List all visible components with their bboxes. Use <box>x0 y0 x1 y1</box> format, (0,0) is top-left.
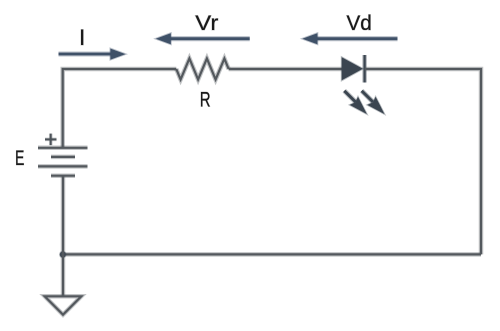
LED emission arrow 2 <box>362 91 385 114</box>
label I <box>79 25 85 50</box>
svg-text:Vr: Vr <box>195 11 218 35</box>
battery E: long plate (positive) <box>38 146 88 151</box>
label Vr <box>195 11 218 35</box>
wire: battery positive terminal up to top-left corner, right to resistor <box>63 69 177 148</box>
svg-text:E: E <box>15 147 24 170</box>
current arrow I <box>59 49 126 60</box>
LED D1 cathode bar <box>362 55 367 83</box>
battery E: short plate 1 <box>51 155 75 160</box>
wire: resistor to LED anode <box>229 67 342 72</box>
svg-text:I: I <box>79 25 85 50</box>
battery plus polarity mark <box>45 134 57 146</box>
wire: bottom return <box>63 252 481 257</box>
wire: battery negative terminal down to ground <box>61 176 66 297</box>
resistor R (zigzag) <box>176 59 228 80</box>
ground symbol <box>45 296 82 314</box>
svg-text:Vd: Vd <box>347 11 372 35</box>
wire: LED cathode to top-right corner, down right side <box>365 69 481 254</box>
voltage arrow Vr (points left) <box>156 33 250 44</box>
battery E: short plate 2 (negative) <box>51 173 75 178</box>
node: junction dot (battery/ground/return) <box>59 251 67 259</box>
svg-text:R: R <box>200 89 211 112</box>
label E <box>15 147 24 170</box>
LED D1 anode triangle <box>342 57 363 80</box>
label Vd <box>347 11 372 35</box>
LED emission arrow 1 <box>344 91 367 114</box>
voltage arrow Vd (points left) <box>302 33 397 44</box>
battery E: long plate 2 <box>38 164 88 169</box>
label R <box>200 89 211 112</box>
